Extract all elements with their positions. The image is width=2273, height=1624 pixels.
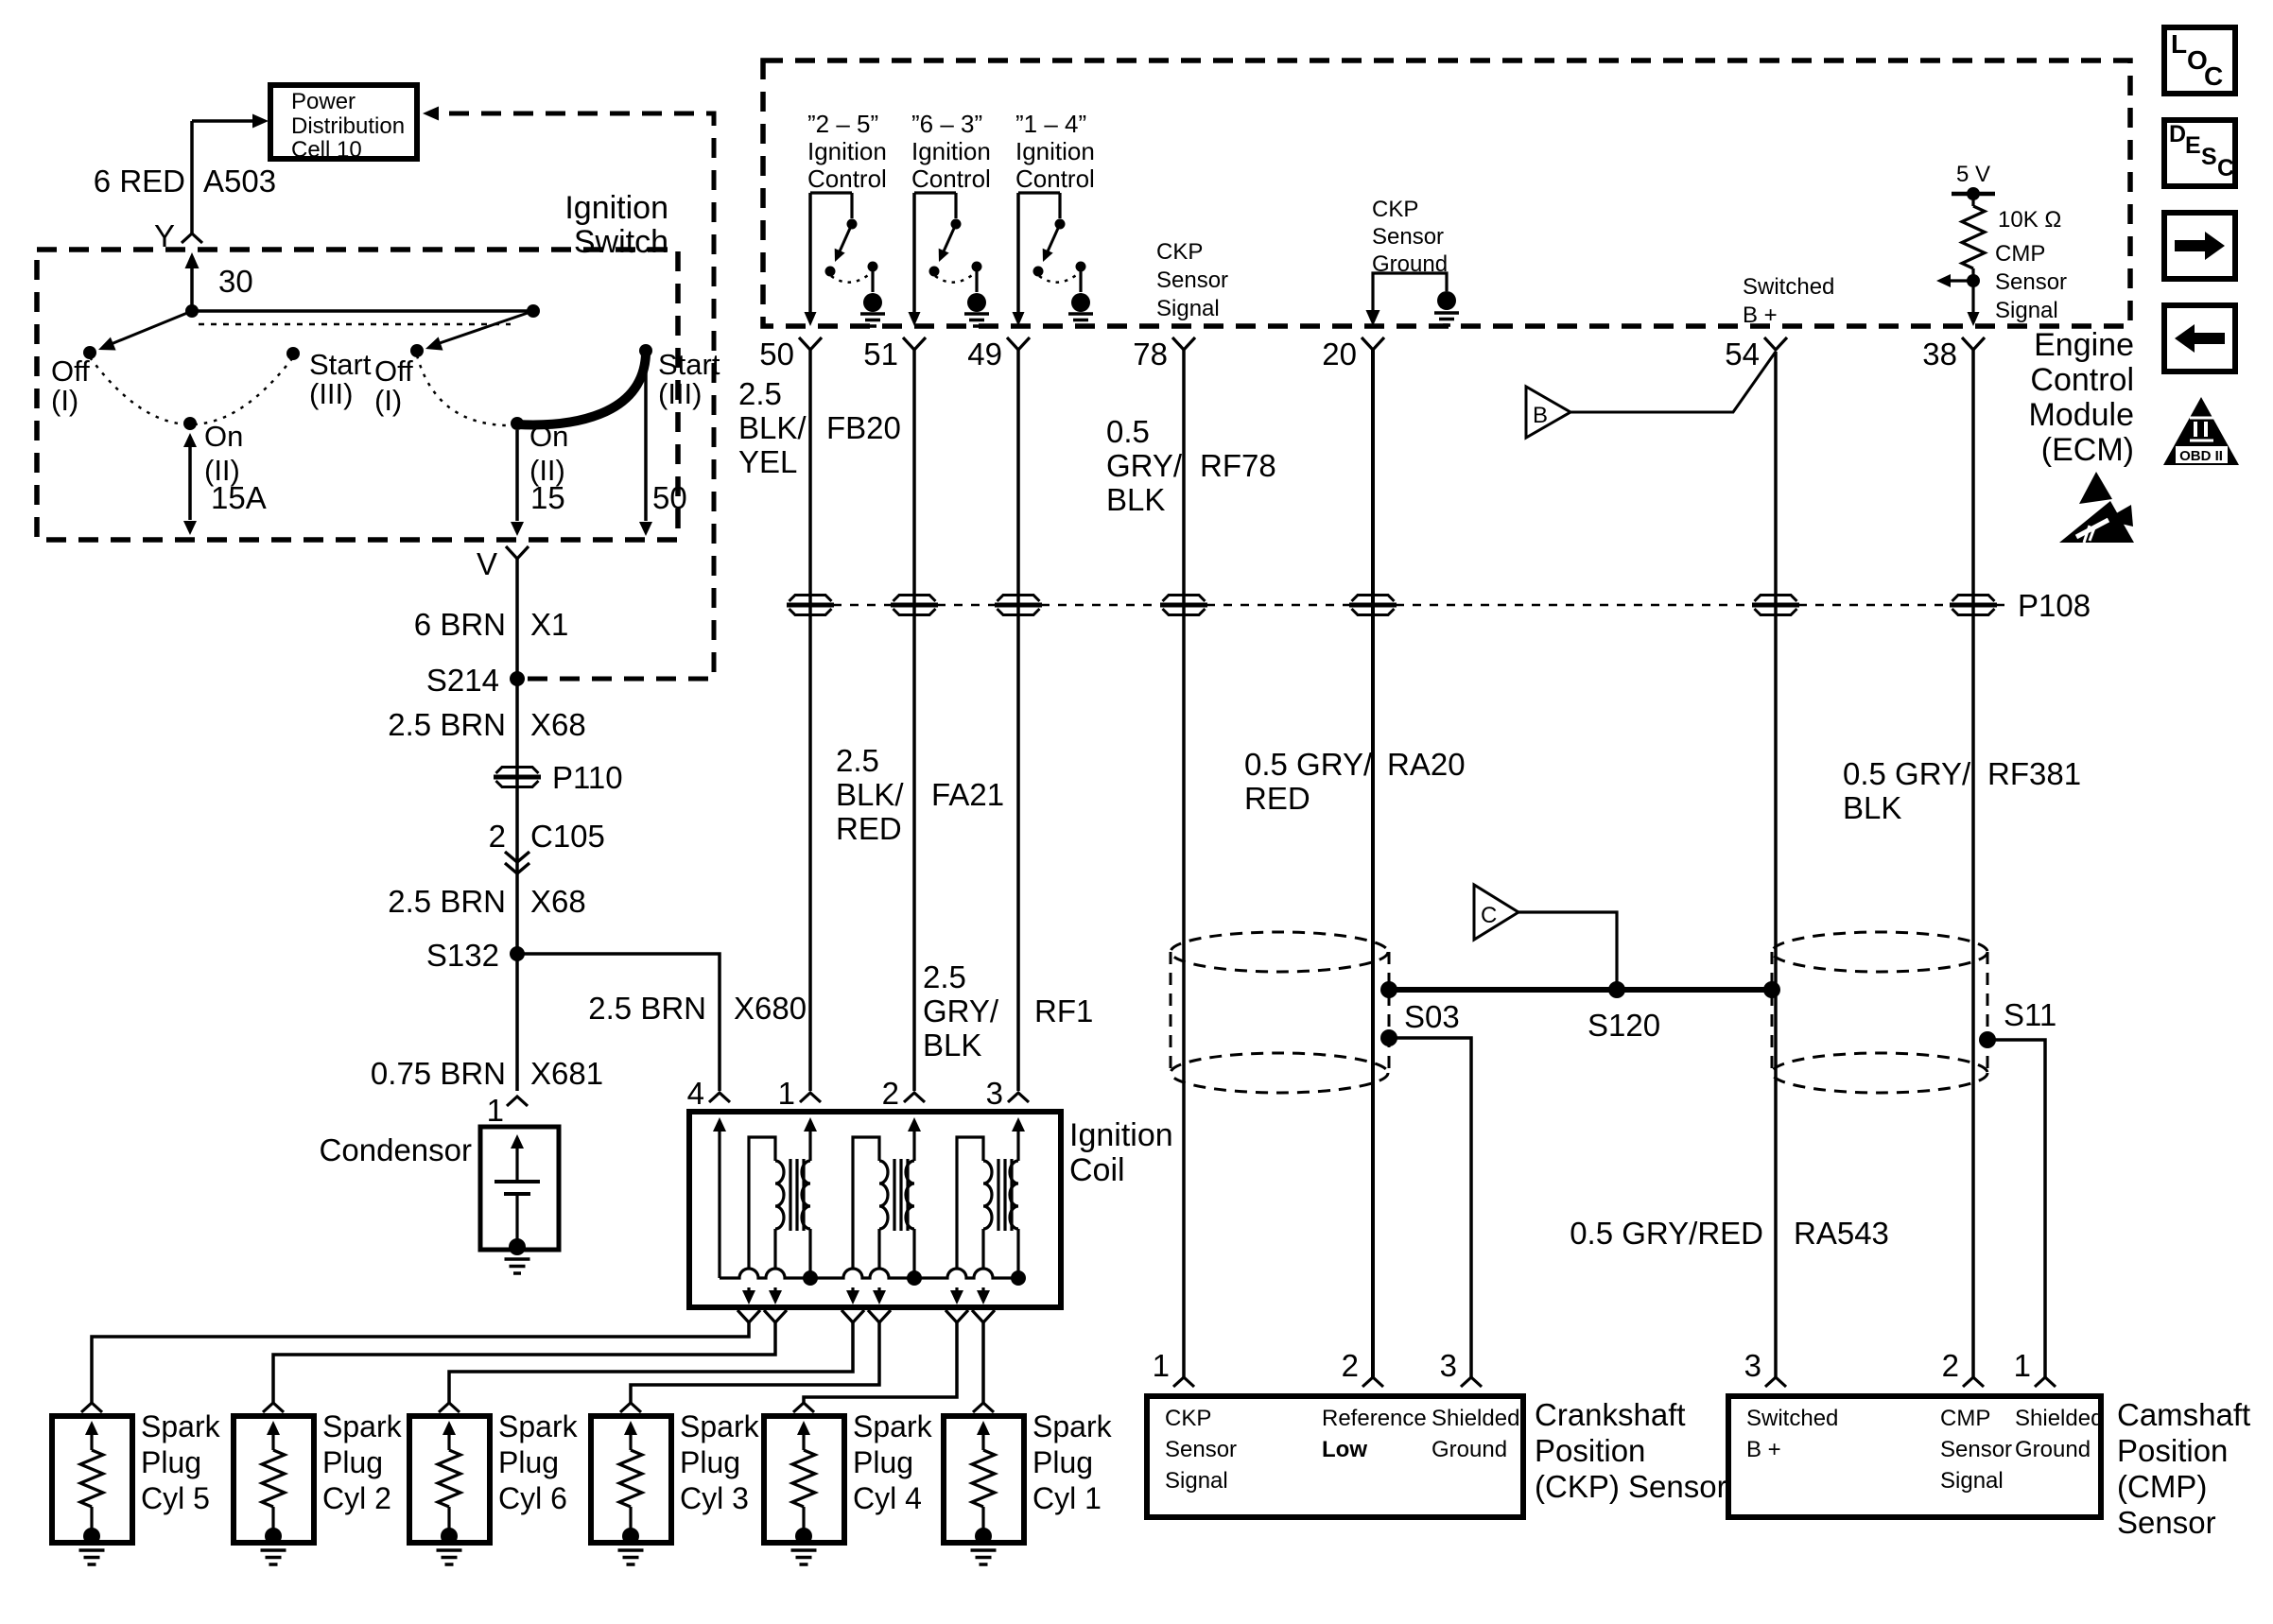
ECM pin 38 connector — [1962, 337, 1985, 350]
svg-text:2: 2 — [882, 1076, 899, 1111]
svg-text:Position: Position — [1535, 1433, 1645, 1468]
ECM pin 49 connector — [1007, 337, 1030, 350]
ignition coil pin 1 connector — [778, 1076, 821, 1111]
OBD II triangle icon — [2163, 397, 2239, 465]
svg-text:(I): (I) — [374, 384, 402, 417]
label RF78 — [1200, 448, 1276, 483]
connector triangle C — [1474, 885, 1518, 940]
svg-text:Switched: Switched — [1746, 1406, 1838, 1431]
svg-text:Ignition: Ignition — [807, 137, 887, 165]
CKP box interior labels — [1165, 1406, 1519, 1494]
connector triangle B — [1526, 387, 1570, 438]
wire from C to S120 — [1518, 912, 1617, 990]
wire from B to pin 54 — [1570, 352, 1776, 412]
svg-text:Sensor: Sensor — [1372, 224, 1444, 250]
svg-text:E: E — [2185, 132, 2201, 159]
svg-text:Cyl 4: Cyl 4 — [853, 1481, 922, 1515]
wire X1 segment — [515, 559, 519, 954]
label RF381 — [1987, 756, 2081, 791]
left switch Start contact dot — [286, 347, 300, 360]
ECM pin 51 connector — [903, 337, 926, 350]
svg-text:CKP: CKP — [1165, 1406, 1211, 1431]
svg-text:38: 38 — [1922, 337, 1957, 371]
svg-text:CKP: CKP — [1372, 197, 1418, 222]
wire X681 segment — [515, 954, 519, 1091]
svg-text:Distribution: Distribution — [291, 113, 405, 139]
svg-text:Signal: Signal — [1156, 296, 1220, 321]
svg-text:0.5 GRY/: 0.5 GRY/ — [1244, 747, 1373, 782]
svg-text:RF1: RF1 — [1034, 993, 1093, 1028]
svg-text:2: 2 — [1342, 1348, 1359, 1383]
label Spark Plug Cyl 2 — [322, 1409, 403, 1515]
label 0.5 GRY/RED RA543 — [1570, 1216, 1889, 1251]
svg-text:0.5 GRY/: 0.5 GRY/ — [1843, 756, 1971, 791]
coil output connector 6 — [972, 1310, 995, 1322]
mechanical coupling dashed line — [199, 323, 511, 326]
label S11 — [2004, 997, 2056, 1032]
connector P108 at x=857 — [787, 596, 834, 615]
label 10K Ohm — [1998, 207, 2061, 233]
svg-text:51: 51 — [863, 337, 898, 371]
connector P108 at x=1878 — [1752, 596, 1799, 615]
svg-text:Cyl 6: Cyl 6 — [498, 1481, 567, 1515]
wire FA21 pin 51 to coil pin 2 — [912, 350, 916, 1091]
svg-text:(CKP) Sensor: (CKP) Sensor — [1535, 1469, 1727, 1504]
CMP box interior labels — [1746, 1406, 2103, 1494]
label A503 — [203, 164, 276, 199]
Power Distribution Cell 10 box — [270, 85, 417, 163]
ECM pin arrow at pin wire 967 — [909, 312, 921, 326]
label P108 — [2018, 588, 2091, 623]
wire coil output 6 to spark plug cyl 1 — [981, 1322, 985, 1403]
svg-text:BLK: BLK — [1106, 482, 1165, 517]
ignition coil transformer T3 secondary — [950, 1137, 992, 1304]
svg-text:Ignition: Ignition — [564, 190, 668, 226]
CMP signal junction dot and tap arrow — [1936, 268, 1980, 313]
spark plug cyl 4 box — [764, 1416, 844, 1543]
svg-text:Ground: Ground — [2015, 1437, 2091, 1462]
svg-text:1: 1 — [487, 1093, 504, 1128]
CKP sensor ground symbol in ECM — [1434, 291, 1459, 325]
svg-text:2.5 BRN: 2.5 BRN — [588, 991, 706, 1026]
left switch dotted travel arc — [90, 357, 293, 424]
spark plug cyl 3 connector — [620, 1403, 641, 1412]
spark plug cyl 6 connector — [439, 1403, 460, 1412]
label Camshaft Position (CMP) Sensor — [2117, 1397, 2250, 1540]
svg-text:6 BRN: 6 BRN — [414, 607, 506, 642]
svg-text:FA21: FA21 — [931, 777, 1004, 812]
svg-text:0.5: 0.5 — [1106, 414, 1150, 449]
svg-text:Ignition: Ignition — [911, 137, 991, 165]
spark plug cyl 4 connector — [793, 1403, 814, 1412]
svg-text:Ground: Ground — [1431, 1437, 1507, 1462]
label On (II) left switch — [204, 420, 243, 487]
wire coil output 1 to spark plug cyl 5 — [92, 1322, 749, 1403]
svg-text:BLK/: BLK/ — [836, 777, 904, 812]
svg-text:2: 2 — [489, 819, 506, 854]
svg-text:Plug: Plug — [322, 1445, 383, 1479]
wire Switched B+ pin 54 to CMP pin 3 — [1774, 352, 1778, 1377]
condensor internal arrow — [511, 1134, 524, 1182]
connector V symbol — [506, 546, 529, 559]
svg-text:Module: Module — [2028, 397, 2134, 433]
wire S03 to CKP shielded ground pin 3 — [1389, 1038, 1471, 1377]
svg-text:Switch: Switch — [574, 224, 668, 260]
spark plug cyl 2 connector — [263, 1403, 284, 1412]
left switch Off contact dot — [83, 346, 96, 359]
right switch closed contact thick arc to Start — [517, 354, 646, 424]
spark plug cyl 5 ground dot — [83, 1528, 100, 1545]
connector C105 chevrons — [505, 852, 529, 873]
spark plug cyl 3 ground dot — [622, 1528, 639, 1545]
spark plug cyl 6 ground symbol — [437, 1550, 462, 1564]
svg-text:C: C — [1481, 903, 1497, 928]
svg-text:Switched: Switched — [1743, 274, 1834, 300]
coil bus junction dots — [803, 1270, 1026, 1286]
svg-text:0.5 GRY/RED: 0.5 GRY/RED — [1570, 1216, 1763, 1251]
svg-text:(I): (I) — [51, 384, 78, 417]
spark plug cyl 3 box — [591, 1416, 671, 1543]
right switch Start contact dot — [639, 344, 652, 357]
svg-text:Cyl 1: Cyl 1 — [1032, 1481, 1102, 1515]
right switch wiper arrow — [425, 311, 533, 351]
label S120 — [1588, 1008, 1660, 1043]
svg-text:X68: X68 — [530, 884, 586, 919]
spark plug cyl 1 ground dot — [975, 1528, 992, 1545]
label FA21 — [931, 777, 1004, 812]
right arrow icon box — [2164, 213, 2235, 279]
CKP sensor pin 1 connector — [1153, 1348, 1194, 1387]
svg-text:GRY/: GRY/ — [1106, 448, 1183, 483]
label 6 RED — [94, 164, 185, 199]
label 2.5 BRN X68 upper — [388, 707, 585, 742]
ignition coil pin 4 connector — [687, 1076, 730, 1111]
ignition coil transformer T1 core — [790, 1159, 804, 1231]
CMP sensor pin 3 connector — [1744, 1348, 1786, 1387]
svg-text:CKP: CKP — [1156, 239, 1203, 265]
wire 15A with double arrow — [183, 433, 197, 535]
svg-text:15A: 15A — [211, 480, 267, 515]
dashed feed line to Power Distribution — [423, 107, 714, 680]
label Crankshaft Position (CKP) Sensor — [1535, 1397, 1727, 1504]
ECM pin 50 connector — [799, 337, 822, 350]
label Start (III) right switch — [658, 348, 720, 410]
svg-text:Control: Control — [1015, 164, 1095, 193]
svg-text:Spark: Spark — [853, 1409, 933, 1443]
svg-text:(ECM): (ECM) — [2041, 432, 2134, 468]
svg-text:Reference: Reference — [1322, 1406, 1427, 1431]
wire coil output 3 to spark plug cyl 6 — [449, 1322, 853, 1403]
wire switch common bar — [192, 309, 533, 313]
connector P108 at x=1252 — [1160, 596, 1207, 615]
svg-text:6 RED: 6 RED — [94, 164, 185, 199]
pin 30 entry arrow — [185, 252, 200, 311]
label 15 — [530, 480, 565, 515]
spark plug cyl 4 resistor — [792, 1421, 815, 1531]
label Condensor — [320, 1132, 472, 1167]
spark plug cyl 2 resistor — [262, 1421, 285, 1531]
svg-text:Coil: Coil — [1069, 1152, 1125, 1188]
label Switched B+ (ECM) — [1743, 274, 1834, 328]
svg-text:Condensor: Condensor — [320, 1132, 472, 1167]
wire RF1 pin 49 to coil pin 3 — [1016, 350, 1020, 1091]
svg-text:Spark: Spark — [322, 1409, 403, 1443]
svg-text:On: On — [204, 420, 243, 453]
svg-text:3: 3 — [1440, 1348, 1457, 1383]
ignition coil transformer T1 secondary — [742, 1137, 784, 1304]
shield left (CKP cable) — [1171, 932, 1389, 1093]
left arrow icon box — [2164, 305, 2235, 371]
label FB20 — [826, 410, 901, 445]
svg-text:Control: Control — [911, 164, 991, 193]
CKP sensor pin 3 connector — [1440, 1348, 1482, 1387]
svg-text:X681: X681 — [530, 1056, 603, 1091]
svg-text:S120: S120 — [1588, 1008, 1660, 1043]
coil output connector 2 — [764, 1310, 787, 1322]
svg-text:Camshaft: Camshaft — [2117, 1397, 2250, 1432]
label S03 — [1404, 999, 1460, 1034]
spark plug cyl 5 box — [52, 1416, 132, 1543]
svg-text:4: 4 — [687, 1076, 704, 1111]
svg-text:78: 78 — [1133, 337, 1168, 371]
svg-text:Sensor: Sensor — [2117, 1505, 2216, 1540]
connector P108 at x=967 — [891, 596, 938, 615]
splice S120 dot — [1608, 981, 1625, 998]
spark plug cyl 6 box — [409, 1416, 490, 1543]
camshaft position sensor box — [1728, 1396, 2101, 1517]
svg-text:2.5: 2.5 — [923, 959, 966, 994]
svg-text:Sensor: Sensor — [1156, 268, 1228, 293]
ignition coil transformer T2 secondary — [846, 1137, 888, 1304]
wire coil output 2 to spark plug cyl 2 — [273, 1322, 775, 1403]
wire RA20 pin 20 to CKP pin 2 — [1371, 350, 1375, 1377]
condensor pin 1 connector — [507, 1097, 528, 1106]
wire 6 RED A503 feed to Power Distribution with arrow — [192, 114, 269, 234]
ignition coil box — [689, 1112, 1061, 1307]
svg-text:FB20: FB20 — [826, 410, 901, 445]
svg-text:1: 1 — [1153, 1348, 1170, 1383]
ignition coil pin 2 connector — [882, 1076, 925, 1111]
shield bonding wire S03 to S120 to right shield — [1389, 987, 1772, 993]
connector Y label — [154, 218, 175, 253]
svg-text:RED: RED — [1244, 781, 1310, 816]
svg-text:(III): (III) — [658, 377, 703, 410]
wire S11 to CMP shielded ground pin 1 — [1987, 1040, 2045, 1377]
svg-text:50: 50 — [652, 480, 687, 515]
svg-text:Plug: Plug — [853, 1445, 913, 1479]
svg-text:Shielded: Shielded — [1431, 1406, 1519, 1431]
svg-text:2.5 BRN: 2.5 BRN — [388, 884, 506, 919]
label 50 ignition switch — [652, 480, 687, 515]
label 0.5 GRY/RED — [1244, 747, 1373, 816]
svg-text:49: 49 — [967, 337, 1002, 371]
spark plug cyl 5 connector — [81, 1403, 102, 1412]
resistor 10K Ohm — [1962, 206, 1985, 268]
label Spark Plug Cyl 6 — [498, 1409, 579, 1515]
label CKP Sensor Ground (ECM) — [1372, 197, 1448, 277]
label pin 49 — [967, 337, 1002, 371]
label Spark Plug Cyl 1 — [1032, 1409, 1113, 1515]
capacitor plates — [495, 1182, 540, 1244]
svg-text:RED: RED — [836, 811, 902, 846]
5V supply bar — [1952, 162, 1995, 206]
ignition coil transformer T3 core — [998, 1159, 1012, 1231]
ignition coil common bus with hops — [720, 1269, 1018, 1278]
svg-text:2.5: 2.5 — [738, 376, 782, 411]
ECM pin arrow at pin 38 — [1968, 312, 1980, 326]
svg-text:Control: Control — [807, 164, 887, 193]
label CMP Sensor Signal (ECM) — [1995, 241, 2067, 323]
switch common node dot left — [185, 304, 199, 318]
svg-text:Sensor: Sensor — [1995, 269, 2067, 295]
label S132 — [426, 938, 499, 973]
svg-text:Sensor: Sensor — [1940, 1437, 2012, 1462]
svg-text:Power: Power — [291, 89, 356, 114]
wire pin 50 down — [639, 357, 652, 536]
label pin 78 — [1133, 337, 1168, 371]
spark plug cyl 6 ground dot — [441, 1528, 458, 1545]
svg-text:0.75 BRN: 0.75 BRN — [371, 1056, 506, 1091]
spark plug cyl 1 resistor — [972, 1421, 995, 1531]
svg-text:Plug: Plug — [498, 1445, 559, 1479]
wire FB20 pin 50 to coil pin 1 — [808, 350, 812, 1091]
svg-text:Control: Control — [2030, 362, 2134, 398]
label 30 — [218, 264, 253, 299]
wire coil output 4 to spark plug cyl 3 — [631, 1322, 879, 1403]
label pin 50 — [759, 337, 794, 371]
spark plug cyl 4 ground symbol — [791, 1550, 817, 1564]
svg-text:Start: Start — [309, 348, 372, 381]
svg-text:Cyl 2: Cyl 2 — [322, 1481, 391, 1515]
wire X680 branch to coil pin 4 — [517, 954, 720, 1091]
label pin 20 — [1322, 337, 1357, 371]
svg-text:30: 30 — [218, 264, 253, 299]
wire coil output 5 to spark plug cyl 4 — [804, 1322, 957, 1403]
connector P108 at x=1452 — [1349, 596, 1397, 615]
condensor ground dot — [509, 1238, 526, 1255]
ECM pin 20 connector — [1362, 337, 1384, 350]
svg-text:YEL: YEL — [738, 444, 797, 479]
ignition control driver 2 label "6 – 3" Ignition Control — [911, 110, 991, 193]
splice S11 dot — [1979, 1031, 1996, 1048]
label Spark Plug Cyl 3 — [680, 1409, 760, 1515]
connector Y symbol — [182, 233, 202, 243]
wire RF78 pin 78 to CKP pin 1 — [1182, 350, 1186, 1377]
svg-text:1: 1 — [778, 1076, 795, 1111]
ECM pin 54 connector — [1764, 337, 1787, 350]
spark plug cyl 1 box — [944, 1416, 1024, 1543]
spark plug cyl 4 ground dot — [795, 1528, 812, 1545]
ignition control driver 2 ground — [964, 293, 989, 326]
svg-text:BLK: BLK — [1843, 790, 1901, 825]
ignition control driver 1 switch — [810, 193, 878, 313]
wire RF381 pin 38 to CMP pin 2 — [1971, 350, 1975, 1377]
svg-text:RF381: RF381 — [1987, 756, 2081, 791]
svg-text:GRY/: GRY/ — [923, 993, 999, 1028]
svg-text:X68: X68 — [530, 707, 586, 742]
ignition control driver 1 ground — [860, 293, 885, 326]
svg-text:B +: B + — [1746, 1437, 1781, 1462]
spark plug cyl 2 ground dot — [265, 1528, 282, 1545]
svg-text:3: 3 — [1744, 1348, 1761, 1383]
left switch wiper arrow — [98, 311, 192, 351]
ignition coil transformer T3 primary — [1010, 1117, 1025, 1278]
svg-text:”2 – 5”: ”2 – 5” — [807, 110, 878, 138]
svg-text:Cyl 5: Cyl 5 — [141, 1481, 210, 1515]
svg-text:Spark: Spark — [141, 1409, 221, 1443]
svg-text:20: 20 — [1322, 337, 1357, 371]
spark plug cyl 1 connector — [973, 1403, 994, 1412]
svg-text:”6 – 3”: ”6 – 3” — [911, 110, 982, 138]
label RA20 — [1387, 747, 1466, 782]
ECM pin arrow at pin wire 857 — [805, 312, 817, 326]
label 15A — [211, 480, 267, 515]
svg-text:2.5 BRN: 2.5 BRN — [388, 707, 506, 742]
label Engine Control Module (ECM) — [2028, 327, 2134, 468]
svg-text:Ignition: Ignition — [1069, 1117, 1173, 1153]
right switch On contact dot — [511, 417, 524, 430]
condensor ground symbol — [505, 1259, 530, 1273]
svg-text:BLK/: BLK/ — [738, 410, 807, 445]
label 6 BRN X1 — [414, 607, 569, 642]
label 2.5 BLK/RED — [836, 743, 904, 846]
svg-text:C: C — [2217, 155, 2234, 181]
label pin 54 — [1725, 337, 1760, 371]
label 2 C105 — [489, 819, 605, 854]
svg-text:Spark: Spark — [498, 1409, 579, 1443]
svg-text:S: S — [2201, 144, 2217, 170]
svg-text:Signal: Signal — [1940, 1468, 2004, 1494]
CKP sensor pin 2 connector — [1342, 1348, 1383, 1387]
ignition control driver 2 switch — [914, 193, 982, 313]
svg-text:10K Ω: 10K Ω — [1998, 207, 2061, 233]
svg-text:2: 2 — [1942, 1348, 1959, 1383]
right shield bond dot — [1763, 981, 1780, 998]
svg-text:BLK: BLK — [923, 1028, 981, 1063]
svg-text:P108: P108 — [2018, 588, 2091, 623]
label Spark Plug Cyl 5 — [141, 1409, 221, 1515]
label Ignition Coil — [1069, 1117, 1173, 1188]
svg-text:RA20: RA20 — [1387, 747, 1466, 782]
svg-text:5 V: 5 V — [1956, 162, 1990, 187]
ignition coil transformer T2 primary — [906, 1117, 921, 1278]
svg-text:Spark: Spark — [680, 1409, 760, 1443]
label Off (I) right switch — [374, 354, 413, 417]
coil output connector 5 — [946, 1310, 968, 1322]
coil pin 4 internal wire to bus — [713, 1117, 726, 1278]
svg-text:CMP: CMP — [1940, 1406, 1990, 1431]
svg-text:V: V — [477, 546, 497, 581]
svg-text:B: B — [1533, 403, 1548, 428]
svg-text:X680: X680 — [734, 991, 807, 1026]
svg-text:Signal: Signal — [1995, 298, 2058, 323]
label Ignition Switch — [564, 190, 668, 260]
ignition control driver 3 label "1 – 4" Ignition Control — [1015, 110, 1095, 193]
svg-text:D: D — [2169, 121, 2186, 147]
svg-text:Plug: Plug — [141, 1445, 201, 1479]
ignition coil transformer T2 core — [894, 1159, 908, 1231]
svg-text:Start: Start — [658, 348, 720, 381]
svg-text:Cell 10: Cell 10 — [291, 137, 362, 163]
shield right (CMP cable) — [1772, 932, 1987, 1093]
ignition control driver 3 switch — [1018, 193, 1086, 313]
svg-text:S214: S214 — [426, 663, 499, 698]
splice S03 upper dot — [1380, 981, 1397, 998]
svg-text:(III): (III) — [309, 377, 354, 410]
svg-text:Ignition: Ignition — [1015, 137, 1095, 165]
DESC icon box — [2164, 120, 2235, 186]
label 0.5 GRY/BLK — [1106, 414, 1183, 517]
